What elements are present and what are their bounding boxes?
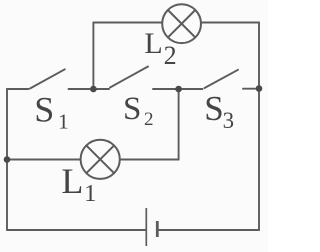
label S3 <box>204 89 234 133</box>
switch S3 <box>205 70 239 88</box>
node junction D <box>4 156 11 163</box>
svg-text:L: L <box>144 27 162 60</box>
wire <box>179 88 203 90</box>
label L1 <box>61 161 96 207</box>
lamp L2 <box>162 4 201 43</box>
svg-text:3: 3 <box>223 108 235 133</box>
node junction A <box>90 86 97 93</box>
wire <box>159 229 259 231</box>
label S1 <box>34 90 68 134</box>
wire <box>7 88 29 90</box>
wire <box>69 88 94 90</box>
wire <box>92 23 94 91</box>
lamp L1 <box>81 140 120 179</box>
wire <box>93 22 162 24</box>
switch S2 <box>110 67 148 88</box>
svg-text:1: 1 <box>84 180 96 207</box>
wire <box>258 23 260 231</box>
svg-text:L: L <box>61 161 83 201</box>
wire <box>7 159 81 161</box>
wire <box>201 22 259 24</box>
wire <box>7 229 146 231</box>
wire <box>243 88 259 90</box>
node junction B <box>175 86 182 93</box>
switch S1 <box>30 69 65 88</box>
svg-text:2: 2 <box>144 109 154 130</box>
label L2 <box>144 27 176 70</box>
wire <box>6 89 8 230</box>
svg-text:S: S <box>34 90 54 130</box>
wire <box>120 159 179 161</box>
battery <box>146 208 157 246</box>
wire <box>178 89 180 160</box>
wire <box>93 88 109 90</box>
svg-text:S: S <box>204 89 223 128</box>
svg-text:1: 1 <box>58 109 69 133</box>
svg-text:2: 2 <box>164 41 177 70</box>
label S2 <box>123 91 154 130</box>
node junction C <box>256 85 263 92</box>
wire <box>153 88 179 90</box>
svg-text:S: S <box>123 91 141 127</box>
